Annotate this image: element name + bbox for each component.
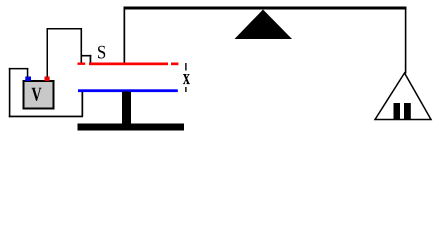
wire: top of left loop <box>9 68 29 70</box>
switch S: blade bar <box>81 55 92 57</box>
red contact stub (left of switch gap) <box>78 63 86 65</box>
battery V (box) <box>24 81 54 109</box>
top plate red dash segment <box>171 63 178 66</box>
hanger wire from beam to weight <box>405 10 407 74</box>
weight W (hanging counterweight triangle) <box>375 73 431 120</box>
fulcrum (pivot triangle) <box>235 10 293 40</box>
beam (balance lever) <box>124 7 407 10</box>
wire: riser to bottom plate <box>82 92 84 117</box>
battery positive terminal (red) <box>45 77 50 82</box>
wire: top run to switch <box>47 28 83 30</box>
base slab <box>78 124 185 131</box>
wire: positive terminal up <box>47 28 49 77</box>
top capacitor plate (red) <box>89 63 168 66</box>
bottom capacitor plate (blue) <box>78 89 178 92</box>
battery label V <box>32 88 42 101</box>
wire: switch drop <box>81 28 83 65</box>
wire: negative terminal up <box>27 68 29 77</box>
wire: left loop vertical <box>9 68 11 117</box>
pedestal column <box>122 92 131 125</box>
gap dimension line: upper dash <box>185 63 186 71</box>
switch S: blade drop <box>90 55 92 63</box>
rod from beam to top plate <box>124 10 126 64</box>
weight bar left <box>394 103 401 119</box>
wire: bottom run to plate <box>9 116 83 118</box>
switch label S <box>98 46 105 59</box>
gap label x <box>183 74 190 84</box>
weight bar right <box>404 103 411 119</box>
battery negative terminal (blue) <box>25 77 31 82</box>
gap dimension line: lower dash <box>185 87 186 92</box>
